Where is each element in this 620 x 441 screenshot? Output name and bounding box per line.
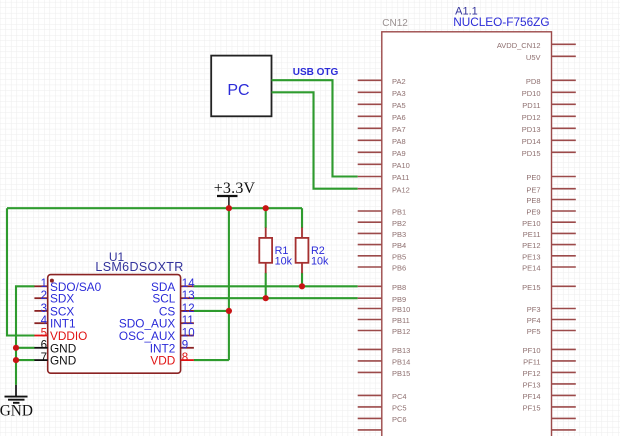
connector pin PA12: [358, 185, 410, 194]
svg-text:U5V: U5V: [526, 53, 541, 62]
power symbol +3.3V: [214, 180, 256, 208]
svg-text:PB6: PB6: [392, 264, 406, 273]
svg-text:10k: 10k: [311, 255, 329, 267]
connector pin PE12: [522, 241, 576, 250]
svg-text:PF14: PF14: [523, 392, 541, 401]
connector pin PB4: [358, 241, 406, 250]
connector pin PE11: [523, 230, 576, 239]
svg-text:+3.3V: +3.3V: [214, 180, 256, 197]
svg-text:PB14: PB14: [392, 358, 410, 367]
svg-text:PB11: PB11: [392, 316, 410, 325]
svg-text:PE12: PE12: [522, 241, 540, 250]
connector pin PF13: [523, 381, 576, 390]
resistor R1 10k: [259, 228, 292, 274]
connector pin PF3: [527, 305, 576, 314]
U1 pin 6 GND: [34, 340, 76, 356]
connector pin PD11: [522, 101, 576, 110]
connector pin PB11: [358, 316, 410, 325]
junction rail-3v3: [226, 205, 232, 211]
U1 pin 4 INT1: [34, 315, 75, 331]
svg-text:GND: GND: [0, 403, 33, 420]
wire SCL net U1 pin13 to PB9: [194, 297, 358, 299]
svg-text:10k: 10k: [275, 255, 293, 267]
connector pin PA8: [358, 137, 406, 146]
svg-text:PB1: PB1: [392, 208, 406, 217]
svg-text:PB5: PB5: [392, 252, 406, 261]
junction R1-SCL: [263, 295, 269, 301]
connector pin PB1: [358, 208, 406, 217]
wire VDD pin8 to +3.3V vertical: [194, 359, 229, 361]
svg-text:PA7: PA7: [392, 125, 406, 134]
U1 pin 13 SCL: [152, 290, 194, 306]
wire +3.3V rail left drop to VDDIO: [7, 208, 35, 335]
svg-text:PD13: PD13: [522, 125, 541, 134]
svg-text:PA5: PA5: [392, 101, 406, 110]
svg-text:PE7: PE7: [526, 185, 540, 194]
svg-text:PD14: PD14: [522, 137, 541, 146]
wire R1 top: [265, 208, 267, 228]
svg-text:PB10: PB10: [392, 305, 410, 314]
connector pin PE9: [526, 208, 575, 217]
svg-text:PB15: PB15: [392, 369, 410, 378]
svg-text:6: 6: [41, 340, 47, 352]
svg-text:PC: PC: [227, 82, 249, 99]
svg-text:NUCLEO-F756ZG: NUCLEO-F756ZG: [453, 15, 549, 29]
connector pin PB14: [358, 358, 411, 367]
connector CN12 label: [382, 18, 408, 29]
svg-text:PA12: PA12: [392, 185, 410, 194]
svg-text:8: 8: [182, 352, 188, 364]
svg-text:PA3: PA3: [392, 89, 406, 98]
svg-text:14: 14: [182, 278, 195, 290]
IC U1 designator and part number: [95, 250, 183, 274]
U1 pin 7 GND: [34, 352, 76, 368]
svg-text:PA11: PA11: [392, 173, 409, 182]
connector pin PE14: [522, 264, 576, 273]
PC box component: [211, 56, 271, 117]
svg-text:CN12: CN12: [382, 18, 408, 29]
svg-text:1: 1: [41, 278, 47, 290]
wire R1 bottom to SCL: [265, 273, 267, 298]
connector pin PF15: [523, 404, 576, 413]
svg-text:5: 5: [41, 327, 47, 339]
svg-text:PF12: PF12: [523, 369, 541, 378]
svg-text:13: 13: [182, 290, 195, 302]
svg-text:PB3: PB3: [392, 230, 406, 239]
connector pin PB5: [358, 252, 406, 261]
svg-text:PF13: PF13: [523, 381, 541, 390]
svg-text:PB12: PB12: [392, 327, 410, 336]
svg-text:AVDD_CN12: AVDD_CN12: [497, 41, 541, 50]
connector pin left stub: [358, 429, 382, 431]
svg-text:PB8: PB8: [392, 283, 406, 292]
svg-text:PA9: PA9: [392, 149, 406, 158]
connector pin PB3: [358, 230, 406, 239]
svg-text:PE10: PE10: [522, 219, 540, 228]
connector pin PA7: [358, 125, 406, 134]
connector pin PD15: [522, 149, 576, 158]
connector pin PB15: [358, 369, 411, 378]
connector pin AVDD_CN12: [497, 41, 576, 50]
wire USB D- from PC to PA12: [272, 92, 358, 188]
U1 pin 2 SDX: [34, 290, 74, 306]
connector pin PB2: [358, 219, 406, 228]
svg-text:PA6: PA6: [392, 113, 406, 122]
svg-text:PD8: PD8: [526, 77, 541, 86]
connector pin PD13: [522, 125, 576, 134]
svg-text:10: 10: [182, 327, 195, 339]
svg-text:PF5: PF5: [527, 327, 541, 336]
connector pin PD8: [526, 77, 576, 86]
connector pin PA10: [358, 161, 410, 170]
svg-text:PA10: PA10: [392, 161, 410, 170]
svg-text:3: 3: [41, 303, 47, 315]
wire GND pin6: [16, 347, 35, 349]
svg-text:12: 12: [182, 303, 195, 315]
svg-text:PF4: PF4: [527, 316, 541, 325]
wire GND pin7: [16, 359, 35, 361]
connector pin U5V: [526, 53, 576, 62]
wire R2 top: [301, 208, 303, 228]
wire SDO/SA0 to ground vertical: [16, 286, 35, 385]
svg-text:PE9: PE9: [526, 208, 540, 217]
wire +3.3V vertical to VDD: [228, 208, 230, 360]
wire +3.3V rail horizontal: [7, 207, 302, 209]
junction CS tap: [226, 308, 232, 314]
connector pin PD10: [522, 89, 576, 98]
U1 pin 3 SCX: [34, 303, 74, 319]
wire CS pin12 to +3.3V vertical: [194, 310, 229, 312]
svg-text:4: 4: [41, 315, 48, 327]
connector pin PC4: [358, 392, 407, 401]
svg-text:7: 7: [41, 352, 47, 364]
ground symbol GND: [0, 385, 33, 420]
junction rail-R1: [263, 205, 269, 211]
svg-text:PF11: PF11: [523, 358, 540, 367]
connector pin PB9: [358, 295, 406, 304]
svg-text:9: 9: [182, 340, 188, 352]
connector pin PB10: [358, 305, 411, 314]
svg-text:PF3: PF3: [527, 305, 541, 314]
junction GND pin7: [13, 357, 19, 363]
connector pin PE15: [522, 283, 576, 292]
connector pin PB12: [358, 327, 411, 336]
svg-text:PD11: PD11: [522, 101, 540, 110]
connector pin right stub: [552, 429, 576, 431]
svg-text:PD10: PD10: [522, 89, 541, 98]
svg-text:VDD: VDD: [150, 354, 175, 368]
connector pin PE10: [522, 219, 576, 228]
connector pin PF11: [523, 358, 576, 367]
svg-text:PE0: PE0: [526, 173, 540, 182]
svg-text:PC4: PC4: [392, 392, 407, 401]
svg-text:2: 2: [41, 290, 47, 302]
svg-text:PE15: PE15: [522, 283, 540, 292]
svg-text:PF15: PF15: [523, 404, 541, 413]
U1 pin 1 SDO/SA0: [34, 278, 101, 294]
svg-text:USB OTG: USB OTG: [293, 67, 339, 78]
connector A1.1 NUCLEO-F756ZG title: [453, 6, 549, 29]
connector pin PD12: [522, 113, 576, 122]
svg-text:PD15: PD15: [522, 149, 541, 158]
connector pin PA5: [358, 101, 406, 110]
connector A1.1 body: [382, 32, 552, 441]
connector pin PA2: [358, 77, 406, 86]
junction GND pin6: [13, 345, 19, 351]
connector pin PA6: [358, 113, 406, 122]
svg-text:PB4: PB4: [392, 241, 406, 250]
connector pin PB6: [358, 264, 406, 273]
connector pin PE13: [522, 252, 576, 261]
svg-text:PB13: PB13: [392, 346, 410, 355]
wire R2 bottom to SDA: [301, 273, 303, 287]
connector pin PF5: [527, 327, 576, 336]
IC U1 LSM6DSOXTR body: [48, 275, 181, 374]
connector pin PE8: [526, 196, 575, 205]
svg-text:PC6: PC6: [392, 415, 407, 424]
connector pin PE0: [526, 173, 575, 182]
junction R2-SDA: [299, 283, 305, 289]
svg-text:PC5: PC5: [392, 404, 407, 413]
svg-text:PE11: PE11: [523, 230, 541, 239]
U1 pin 5 VDDIO: [34, 327, 87, 343]
svg-text:PF10: PF10: [523, 346, 541, 355]
svg-text:PE13: PE13: [522, 252, 540, 261]
connector pin PB8: [358, 283, 406, 292]
connector pin right stub: [552, 417, 576, 419]
connector pin PF12: [523, 369, 576, 378]
connector pin PC6: [358, 415, 407, 424]
U1 pin 9 INT2: [150, 340, 194, 356]
svg-text:PE8: PE8: [526, 196, 540, 205]
wire USB D+ from PC to PA11: [272, 80, 358, 176]
connector pin PC5: [358, 404, 407, 413]
U1 pin 8 VDD: [150, 352, 194, 368]
U1 pin 10 OSC_AUX: [119, 327, 195, 343]
U1 pin 12 CS: [159, 303, 195, 319]
connector pin PB13: [358, 346, 411, 355]
resistor R2 10k: [296, 228, 329, 274]
connector pin PF14: [523, 392, 576, 401]
connector pin PF4: [527, 316, 576, 325]
connector pin PE7: [526, 185, 575, 194]
connector pin PF10: [523, 346, 576, 355]
net label USB OTG: [293, 67, 339, 78]
svg-text:PB2: PB2: [392, 219, 406, 228]
svg-text:PD12: PD12: [522, 113, 541, 122]
connector pin PA3: [358, 89, 406, 98]
svg-text:PA2: PA2: [392, 77, 406, 86]
wire SDA net U1 pin14 to PB8: [194, 285, 358, 287]
svg-text:PE14: PE14: [522, 264, 540, 273]
connector pin PD14: [522, 137, 576, 146]
connector pin PA11: [358, 173, 410, 182]
connector pin PA9: [358, 149, 406, 158]
svg-text:PA8: PA8: [392, 137, 406, 146]
svg-text:LSM6DSOXTR: LSM6DSOXTR: [95, 260, 183, 274]
U1 pin 14 SDA: [151, 278, 195, 294]
svg-text:PB9: PB9: [392, 295, 406, 304]
svg-text:GND: GND: [50, 354, 76, 368]
U1 pin 11 SDO_AUX: [119, 315, 194, 331]
svg-text:11: 11: [182, 315, 194, 327]
